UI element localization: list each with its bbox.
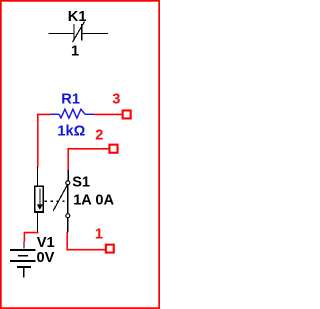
switch S1 pole line: [67, 185, 69, 214]
svg-text:K1: K1: [68, 9, 87, 25]
R1 left lead: [50, 113, 59, 115]
switch S1 lever: [53, 185, 67, 211]
switch S1 upper contact: [66, 181, 70, 185]
K1 actuator slash: [72, 22, 84, 43]
switch S1 lower contact: [66, 214, 70, 218]
battery top lead: [23, 241, 25, 248]
R1 right lead: [85, 113, 94, 115]
wire switch to terminal 1: [67, 232, 105, 250]
svg-text:S1: S1: [72, 174, 90, 190]
terminal 1 square: [105, 244, 115, 254]
ground stem: [23, 267, 25, 278]
wire left lead of K1: [49, 33, 75, 35]
wire right lead of K1: [82, 33, 108, 35]
wire from R1 left corner down to sensor: [38, 114, 51, 167]
wire R1 to terminal 3: [94, 113, 122, 115]
actuating dashed link: [44, 200, 64, 202]
terminal 3 square: [122, 109, 132, 119]
current sensor top lead: [37, 167, 39, 186]
battery V1: [10, 241, 35, 277]
svg-text:2: 2: [95, 127, 103, 143]
svg-text:1A 0A: 1A 0A: [73, 192, 114, 208]
R1 zigzag body: [59, 109, 85, 118]
current sensor body: [34, 185, 44, 213]
wire sensor to battery: [24, 233, 38, 242]
svg-text:3: 3: [112, 91, 120, 107]
battery plate short: [18, 255, 28, 257]
switch S1 upper pin lead: [67, 170, 69, 181]
relay contact K1: [49, 22, 108, 43]
current sensor bottom lead: [37, 213, 39, 232]
border frame: [1, 1, 159, 308]
svg-text:1kΩ: 1kΩ: [57, 124, 85, 140]
resistor R1: [50, 109, 94, 118]
battery plate long top: [10, 249, 35, 251]
K1 contact bar right: [81, 24, 83, 41]
battery plate long bottom: [10, 260, 35, 262]
wire terminal 2 to switch: [68, 149, 108, 171]
ground bar: [17, 266, 31, 268]
current sensor arrow head: [37, 204, 43, 210]
svg-text:0V: 0V: [37, 250, 55, 266]
svg-text:1: 1: [95, 227, 103, 243]
switch S1 lower pin lead: [67, 218, 69, 233]
svg-text:1: 1: [71, 44, 79, 60]
black tip of switch lower wire: [67, 231, 69, 233]
svg-text:V1: V1: [37, 235, 55, 251]
terminal 2 square: [108, 144, 118, 154]
svg-text:R1: R1: [61, 92, 80, 108]
K1 contact bar left: [73, 24, 75, 41]
current sensor arrow shaft: [39, 188, 41, 206]
